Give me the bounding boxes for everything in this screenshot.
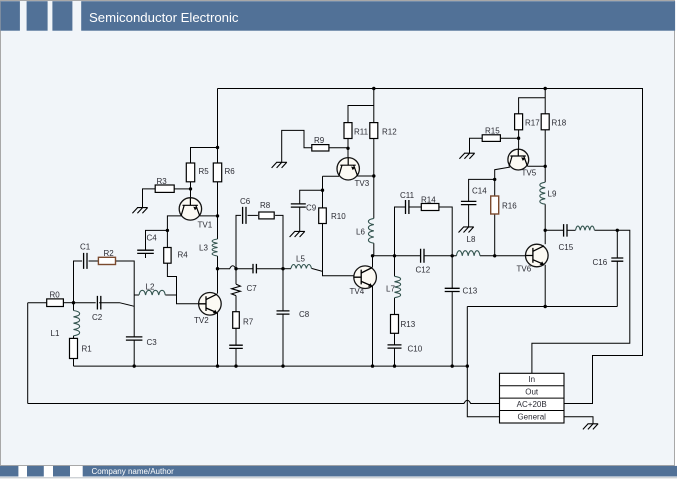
- svg-text:L9: L9: [548, 190, 557, 199]
- junction TV1 left / C4 / R4: [166, 229, 169, 232]
- svg-text:R3: R3: [157, 177, 168, 186]
- junction riser / R5 branch: [216, 146, 219, 149]
- junction TV6 emitter / output rail: [544, 305, 547, 308]
- transistor TV5: [508, 149, 529, 170]
- capacitor C11: [406, 200, 409, 214]
- wire: R2 to right corner down to L2/C3 vertical: [116, 261, 135, 337]
- wire: R10 column: C9 tap to R10: [322, 176, 324, 208]
- wire: TV4 collector node right to C12: [373, 255, 421, 257]
- wire: R16/C14 node branch: [494, 179, 496, 196]
- wire: node down to L1 top: [73, 303, 75, 311]
- resistor R11: [344, 123, 352, 139]
- junction bottom rail / TV4 emitter: [371, 364, 374, 367]
- inductor L8: [456, 251, 480, 256]
- junction bottom rail / R7 branch: [234, 364, 237, 367]
- resistor R16: [491, 196, 499, 214]
- wire: R4 bottom jog down to TV2 base: [167, 263, 198, 304]
- wire: C2 to slanted joint: [99, 303, 134, 307]
- inductor L7: [395, 276, 401, 297]
- transistor TV4: [354, 266, 377, 289]
- capacitor C14: [461, 201, 477, 204]
- wire: R9 right lead: [329, 147, 348, 149]
- wire: L8 to TV6 base: [480, 255, 526, 257]
- footer square 2: [27, 466, 44, 477]
- wire: R18 top from supply dot: [544, 89, 546, 114]
- svg-text:C3: C3: [147, 338, 158, 347]
- wire: C6/R8 loop left leg: [236, 215, 241, 268]
- wire: TV5 right lead: [528, 165, 545, 167]
- svg-text:C12: C12: [416, 266, 431, 275]
- junction R9 / R11 / TV3 base: [346, 147, 349, 150]
- wire: TV4 collector up to node: [372, 256, 373, 269]
- svg-text:R5: R5: [199, 167, 210, 176]
- wire: left riser from top rail to R6 top: [217, 89, 219, 164]
- junction bottom rail / C10: [393, 364, 396, 367]
- footer square 3: [53, 466, 70, 477]
- wire: R14 right leg down: [439, 207, 452, 256]
- capacitor C15: [564, 224, 567, 237]
- svg-text:C7: C7: [247, 284, 258, 293]
- resistor R7: [233, 312, 240, 329]
- wire: C15 branch from collector node: [545, 229, 563, 231]
- wire: C9 branch: [300, 190, 323, 204]
- svg-text:R0: R0: [50, 291, 61, 300]
- wire: C8 node to L5: [283, 268, 291, 270]
- junction top rail / R12 column: [372, 87, 375, 90]
- wire: R6 bottom through TV1-emitter junction to L3 top: [217, 182, 219, 239]
- wire: TV4 emitter down to bottom rail: [372, 286, 374, 366]
- inductor L3: [212, 239, 217, 256]
- junction L8 / R16 column: [493, 254, 496, 257]
- junction L6 / TV4 collector: [371, 254, 374, 257]
- wire: R13 to C10: [394, 333, 396, 345]
- wire: L3 bottom to mid-rail tee and TV2 collector: [217, 256, 219, 294]
- transistor TV2: [199, 293, 222, 316]
- svg-text:AC+20B: AC+20B: [517, 400, 547, 409]
- wire: R11 top branch: [348, 106, 374, 123]
- svg-text:C16: C16: [593, 258, 608, 267]
- header square 1: [1, 1, 20, 31]
- ground below C9: [290, 231, 305, 237]
- wire: General right lead to earth: [564, 417, 593, 424]
- wire: R5 bottom to R3 junction to TV1 base: [190, 182, 192, 198]
- junction mid-rail / C8 / R8 leg: [281, 267, 284, 270]
- svg-text:R12: R12: [382, 128, 397, 137]
- capacitor C3: [126, 337, 142, 340]
- wire: C1 to R2: [89, 260, 99, 262]
- svg-text:L3: L3: [199, 244, 208, 253]
- footer bottom line: [0, 477, 677, 478]
- junction R15 / R17 / TV5 base: [517, 137, 520, 140]
- svg-text:L1: L1: [51, 329, 60, 338]
- wire: C8 node down to C8 plates: [282, 269, 284, 311]
- wire: L7 top lead: [394, 256, 396, 276]
- header title bar: [81, 1, 675, 31]
- junction R14 leg / C12 / C13: [451, 254, 454, 257]
- wire: C11 to R14: [409, 206, 421, 208]
- wire: R8 right leg down to C8 node: [275, 215, 283, 268]
- junction bottom rail / C3: [133, 364, 136, 367]
- capacitor C16: [611, 258, 623, 261]
- junction TV1 emitter / riser: [216, 214, 219, 217]
- junction C15 out / C16 top: [616, 229, 619, 232]
- wire: C15 cap to coil: [567, 229, 576, 231]
- ground below C14: [459, 227, 474, 233]
- svg-text:R11: R11: [354, 128, 369, 137]
- wire: top supply rail across to right edge down to AC+20B row: [218, 89, 643, 404]
- wire: TV1 left lead down to C4/R4 junction: [167, 216, 181, 231]
- resistor R10: [319, 208, 327, 224]
- wire: C9 bottom stem to ground: [299, 207, 301, 231]
- resistor R5: [186, 163, 194, 182]
- wire: R15 right lead: [500, 137, 518, 139]
- svg-text:C11: C11: [400, 191, 415, 200]
- svg-text:R1: R1: [82, 345, 93, 354]
- svg-text:TV5: TV5: [522, 169, 537, 178]
- ground near R15: [459, 153, 474, 159]
- capacitor (unlabeled) below R7: [229, 345, 243, 348]
- resistor R14: [421, 204, 439, 211]
- capacitor C10: [388, 345, 402, 348]
- svg-text:L5: L5: [296, 255, 305, 264]
- svg-text:C2: C2: [92, 313, 103, 322]
- wire: L1 bottom to R1 top: [73, 336, 75, 339]
- resistor R18: [541, 114, 549, 130]
- svg-text:TV4: TV4: [350, 287, 365, 296]
- wire: zigzag branch from mid-rail node: [235, 269, 237, 284]
- wire: bypass capacitor to bottom rail: [235, 348, 237, 366]
- inductor L2: [139, 290, 165, 295]
- header square 3: [52, 1, 72, 31]
- wire: C2 lead from node: [74, 302, 96, 304]
- junction L9 column / C15 branch: [544, 229, 547, 232]
- connector box outline: [500, 373, 565, 423]
- wire: R17 top branch: [519, 98, 546, 114]
- wire: C7 to C8 node: [257, 268, 283, 270]
- transistor TV1: [179, 198, 201, 220]
- wire: ground-net vertical down to General row: [467, 307, 499, 417]
- capacitor C12: [421, 249, 424, 263]
- transistor TV3: [337, 158, 359, 180]
- wire: R15 left lead to ground: [470, 138, 483, 153]
- wire: output rail (wire A): [467, 306, 617, 308]
- wire: R7 to bypass capacitor: [235, 328, 237, 345]
- svg-text:C9: C9: [306, 204, 317, 213]
- resistor R17: [515, 114, 523, 130]
- wire: C14 branch from node: [469, 179, 495, 201]
- wire: L5 right diagonal lead to R10 column: [312, 268, 323, 271]
- svg-text:Semiconductor Electronic: Semiconductor Electronic: [89, 10, 239, 25]
- junction mid-rail / zigzag branch: [234, 267, 237, 270]
- wire: AC+20B long line with hop over ground-net vertical: [28, 400, 500, 403]
- wire: R9 left Z-bend to ground: [282, 130, 312, 162]
- header square 2: [27, 1, 48, 31]
- inductor L9: [540, 182, 545, 204]
- wire: R18 bottom through TV5-emitter node to L9: [544, 130, 546, 182]
- wire: R3 left lead down to ground: [143, 189, 156, 208]
- junction R0 / C1 / C2 / L1: [72, 301, 75, 304]
- wire: R5 branch from riser junction: [191, 148, 218, 164]
- inductor L5: [291, 265, 311, 269]
- junction mid-rail tee: [216, 267, 219, 270]
- svg-text:TV6: TV6: [517, 265, 532, 274]
- svg-text:C8: C8: [299, 310, 310, 319]
- svg-text:L7: L7: [386, 285, 395, 294]
- svg-text:R2: R2: [104, 249, 115, 258]
- wire: C15 coil to C16 node and down to In row: [532, 230, 630, 373]
- wire: R10 bottom to TV4 base corner: [323, 224, 354, 276]
- ground near R9: [272, 162, 287, 168]
- svg-text:Company name/Author: Company name/Author: [92, 467, 175, 476]
- svg-text:R10: R10: [331, 212, 346, 221]
- svg-text:R13: R13: [401, 320, 416, 329]
- capacitor C4: [137, 250, 154, 253]
- wire: bottom ground rail: [74, 365, 468, 367]
- wire: R0 left lead and left drop to AC+20B line: [28, 303, 47, 404]
- svg-text:R8: R8: [260, 201, 271, 210]
- wire: R1 bottom to bottom rail: [73, 359, 75, 367]
- junction bottom rail / TV2 emitter: [216, 364, 219, 367]
- wire: TV3 base column from R9/R11 node: [347, 148, 349, 157]
- svg-text:General: General: [517, 412, 546, 421]
- svg-text:C15: C15: [559, 243, 574, 252]
- wire: L7 to R13: [394, 298, 396, 315]
- wire: L6 bottom to TV4 collector node: [373, 243, 375, 256]
- wire: junction to C4: [146, 230, 168, 250]
- svg-text:L2: L2: [146, 283, 155, 292]
- capacitor C2: [97, 296, 100, 310]
- wire: R3 right lead: [175, 188, 191, 190]
- wire: R12 column from top rail: [373, 89, 375, 123]
- resistor R4: [164, 248, 171, 264]
- capacitor C7: [253, 264, 256, 274]
- wire: R16 column below: [494, 214, 496, 256]
- svg-text:L6: L6: [356, 228, 365, 237]
- ground at General pin: [583, 424, 598, 430]
- connector box row dividers: [500, 386, 565, 411]
- ground near R3: [132, 208, 147, 214]
- transistor TV6: [526, 244, 549, 267]
- wire: R12 bottom through TV3-collector node to L6: [373, 139, 375, 219]
- junction TV5 left / C14 / R16: [493, 178, 496, 181]
- resistor R0: [47, 299, 64, 307]
- junction top rail / R18 column: [544, 87, 547, 90]
- resistor R6: [213, 163, 221, 182]
- capacitor C9: [291, 204, 306, 207]
- junction L7 / C11 leg: [393, 254, 396, 257]
- wire: C11/R14 loop left leg: [395, 207, 406, 256]
- wire: C16 column: [616, 230, 618, 258]
- svg-text:R9: R9: [314, 136, 325, 145]
- capacitor C13: [445, 288, 460, 291]
- svg-text:R4: R4: [178, 251, 189, 260]
- wire: C8 to bottom rail: [282, 314, 284, 366]
- wire: L2 right lead: [165, 294, 176, 296]
- wire: TV5 base from R15/R17 node: [518, 138, 520, 149]
- junction TV3 collector / R12 column: [372, 174, 375, 177]
- capacitor C6: [243, 207, 246, 224]
- wire: C16 bottom: [616, 261, 618, 306]
- footer square 1: [0, 466, 18, 477]
- wire: TV3 left lead to R10 column: [323, 175, 340, 177]
- footer bar: [83, 466, 677, 477]
- resistor R9: [312, 145, 329, 151]
- wire: TV3 right lead to R12 column: [356, 175, 374, 177]
- resistor R13: [391, 315, 399, 334]
- inductor L1: [74, 311, 80, 336]
- svg-text:TV3: TV3: [355, 179, 370, 188]
- svg-text:R18: R18: [552, 119, 567, 128]
- wire: junction to R4 top: [166, 230, 168, 247]
- svg-text:TV1: TV1: [198, 221, 213, 230]
- inductor of C15 output filter: [576, 226, 595, 230]
- wire: C4 bottom stub: [145, 253, 147, 258]
- junction bottom rail / C13: [451, 364, 454, 367]
- wire: C1 branch riser: [74, 261, 83, 303]
- svg-text:C4: C4: [147, 234, 158, 243]
- junction TV5 emitter / R18 column: [544, 165, 547, 168]
- svg-text:R7: R7: [243, 318, 254, 327]
- junction output rail / ground-net vertical: [466, 364, 469, 367]
- resistor R12: [370, 123, 378, 139]
- wire: C12 to C13 node: [424, 255, 456, 257]
- inductor L6: [368, 218, 373, 243]
- wire: R17 bottom to node: [518, 130, 520, 138]
- resistor R8: [259, 212, 274, 219]
- wire: L9 bottom to C15 node to TV6 collector: [544, 204, 546, 244]
- svg-text:C10: C10: [408, 345, 423, 354]
- resistor R15: [482, 135, 500, 142]
- svg-text:R15: R15: [485, 127, 500, 136]
- wire: TV2 emitter down to bottom rail: [217, 313, 219, 367]
- svg-text:R14: R14: [421, 196, 436, 205]
- wire: R0 right lead to node: [63, 302, 73, 304]
- wire: L2 left lead: [134, 294, 139, 296]
- junction R3 / R5 / TV1 base: [189, 187, 192, 190]
- wire: C6 to R8: [248, 214, 258, 216]
- wire: zigzag to R7: [235, 296, 237, 312]
- wire: C14 stem to ground: [468, 205, 470, 227]
- wire: mid rail from TV2 collector tee with hop bump to C7: [218, 266, 253, 269]
- svg-text:C1: C1: [80, 243, 91, 252]
- resistor R2: [98, 257, 115, 264]
- wire: C13 to bottom rail: [451, 292, 453, 367]
- svg-text:R6: R6: [225, 167, 236, 176]
- svg-text:L8: L8: [467, 235, 476, 244]
- svg-text:TV2: TV2: [194, 316, 209, 325]
- svg-text:In: In: [528, 375, 535, 384]
- svg-text:R16: R16: [502, 202, 517, 211]
- zigzag element (thermistor) above R7: [232, 284, 241, 296]
- wire: TV1 right lead to riser: [200, 215, 218, 217]
- wire: C3 bottom to bottom rail: [133, 340, 135, 366]
- svg-text:C14: C14: [472, 187, 487, 196]
- resistor R1: [70, 338, 78, 358]
- wire: C13 column top: [451, 256, 453, 288]
- capacitor C1: [84, 253, 87, 269]
- junction bottom rail / C8: [281, 364, 284, 367]
- svg-text:Out: Out: [525, 388, 539, 397]
- svg-text:R17: R17: [525, 119, 540, 128]
- svg-text:C13: C13: [463, 287, 478, 296]
- svg-text:C6: C6: [240, 197, 251, 206]
- junction C9 tap: [321, 189, 324, 192]
- wire: R11 bottom to node: [347, 139, 349, 149]
- wire: C10 to bottom rail: [394, 348, 396, 366]
- capacitor C8: [277, 311, 290, 314]
- wire: TV5 left lead: [495, 167, 510, 179]
- resistor R3: [155, 185, 174, 192]
- wire: TV6 emitter down to output rail: [544, 265, 546, 307]
